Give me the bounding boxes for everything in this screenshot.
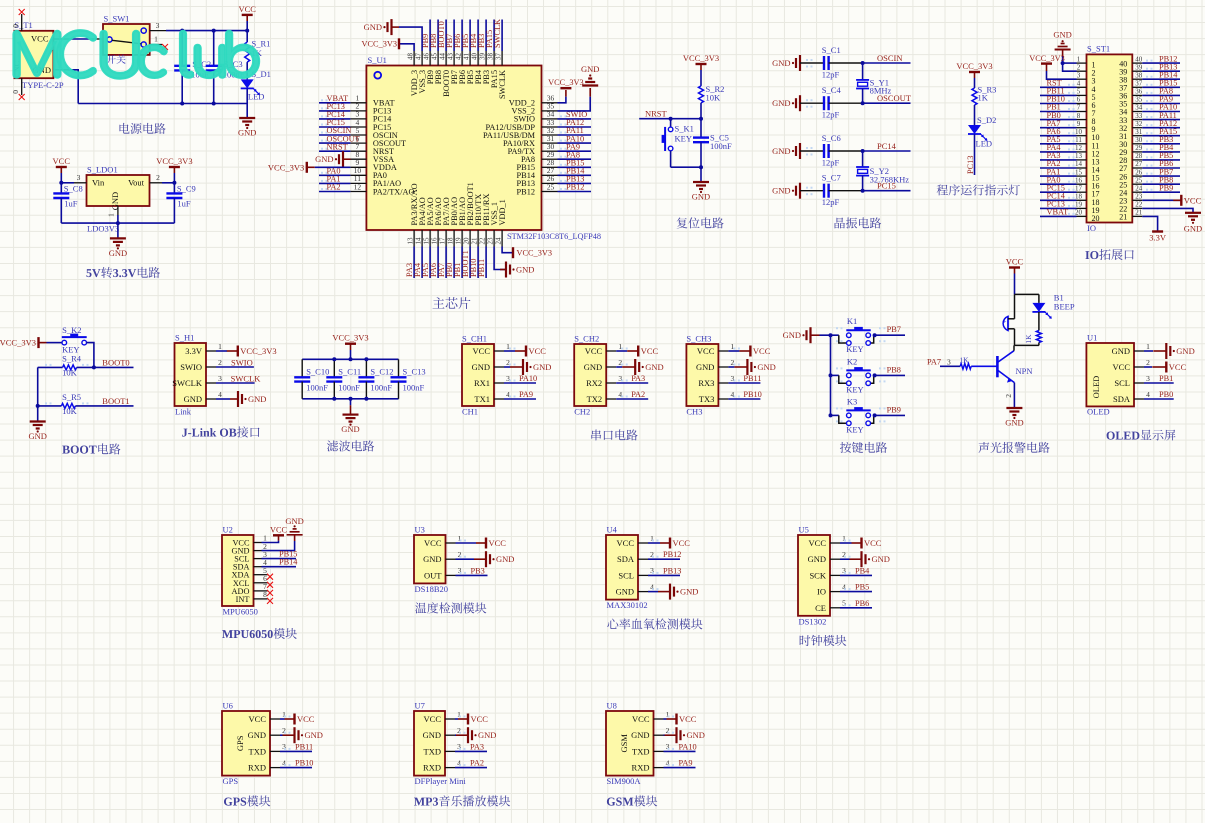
svg-text:PB12: PB12: [566, 183, 584, 192]
svg-text:PB9: PB9: [1159, 183, 1173, 192]
svg-text:K1: K1: [847, 316, 857, 326]
svg-text:25: 25: [1135, 176, 1143, 184]
svg-text:38: 38: [486, 53, 494, 61]
svg-text:31: 31: [1135, 128, 1143, 136]
svg-text:VCC: VCC: [632, 714, 650, 724]
svg-text:SWIO: SWIO: [231, 357, 253, 367]
svg-text:14: 14: [414, 237, 422, 245]
svg-text:GND: GND: [423, 730, 441, 740]
svg-text:GND: GND: [616, 587, 634, 597]
svg-text:PB3: PB3: [471, 566, 485, 575]
svg-text:4: 4: [1077, 80, 1081, 88]
svg-text:NRST: NRST: [645, 109, 668, 119]
svg-text:PA2/TX/AO: PA2/TX/AO: [373, 187, 415, 196]
svg-text:S_LDO1: S_LDO1: [87, 165, 118, 175]
svg-text:13: 13: [1075, 152, 1083, 160]
svg-text:22: 22: [478, 237, 486, 245]
svg-text:8MHz: 8MHz: [870, 86, 892, 96]
svg-text:26: 26: [1135, 168, 1143, 176]
svg-text:LDO3V3: LDO3V3: [87, 224, 119, 234]
svg-text:PB11: PB11: [743, 374, 761, 383]
svg-text:1K: 1K: [1024, 334, 1033, 344]
svg-text:VCC: VCC: [809, 538, 827, 548]
svg-text:GND: GND: [584, 362, 602, 372]
svg-text:VCC: VCC: [489, 538, 507, 548]
svg-text:3: 3: [1146, 374, 1150, 383]
svg-text:Vout: Vout: [128, 178, 145, 188]
svg-text:S_U1: S_U1: [368, 55, 387, 65]
svg-text:STM32F103C8T6_LQFP48: STM32F103C8T6_LQFP48: [507, 232, 601, 241]
svg-text:TYPE-C-2P: TYPE-C-2P: [22, 80, 64, 90]
svg-text:5: 5: [1077, 88, 1081, 96]
svg-text:PB12: PB12: [517, 187, 535, 196]
svg-text:S_CH3: S_CH3: [686, 334, 711, 344]
svg-text:2: 2: [1077, 63, 1081, 71]
svg-text:17: 17: [438, 237, 446, 245]
svg-text:S_H1: S_H1: [175, 333, 194, 343]
svg-text:1: 1: [1077, 55, 1081, 63]
svg-text:VCC: VCC: [697, 346, 715, 356]
svg-text:23: 23: [486, 237, 494, 245]
svg-text:S_ST1: S_ST1: [1087, 44, 1110, 54]
svg-text:VCC_3V3: VCC_3V3: [0, 338, 36, 348]
svg-text:GND: GND: [238, 128, 256, 138]
svg-text:PB1: PB1: [1159, 374, 1173, 383]
svg-text:GND: GND: [1184, 224, 1202, 234]
svg-text:11: 11: [1075, 136, 1082, 144]
svg-text:S_C6: S_C6: [822, 133, 841, 143]
svg-text:GND: GND: [305, 730, 323, 740]
svg-text:RXD: RXD: [632, 763, 650, 773]
svg-text:VBAT: VBAT: [1047, 208, 1069, 217]
svg-text:18: 18: [1075, 193, 1083, 201]
svg-text:8: 8: [1077, 112, 1081, 120]
svg-text:17: 17: [1075, 184, 1083, 192]
svg-text:9: 9: [1077, 120, 1081, 128]
svg-text:GND: GND: [496, 554, 514, 564]
svg-text:GND: GND: [364, 22, 382, 32]
svg-text:MPU6050: MPU6050: [223, 607, 258, 617]
svg-text:10K: 10K: [62, 406, 78, 416]
svg-text:DS1302: DS1302: [799, 616, 827, 626]
svg-text:VCC: VCC: [249, 714, 267, 724]
svg-text:GND: GND: [772, 146, 790, 156]
svg-text:GND: GND: [472, 362, 490, 372]
svg-text:LED: LED: [248, 92, 265, 102]
svg-text:12: 12: [354, 182, 362, 191]
svg-text:3.3V: 3.3V: [185, 346, 203, 356]
svg-text:15: 15: [1075, 168, 1083, 176]
svg-text:1: 1: [154, 35, 158, 44]
svg-text:RXD: RXD: [248, 763, 266, 773]
svg-text:TX1: TX1: [474, 394, 490, 404]
svg-text:U6: U6: [223, 701, 233, 711]
svg-text:43: 43: [446, 53, 454, 61]
svg-text:SWCLK: SWCLK: [498, 70, 507, 99]
svg-text:2: 2: [156, 173, 160, 182]
svg-text:GND: GND: [315, 154, 333, 164]
svg-text:4: 4: [218, 390, 222, 399]
svg-text:VCC_3V3: VCC_3V3: [956, 61, 992, 71]
svg-text:U5: U5: [799, 525, 809, 535]
svg-text:1uF: 1uF: [177, 199, 191, 209]
svg-text:39: 39: [478, 53, 486, 61]
svg-text:VCC: VCC: [471, 714, 489, 724]
svg-text:3: 3: [947, 357, 951, 366]
svg-text:VCC: VCC: [1169, 362, 1187, 372]
svg-text:SCL: SCL: [1114, 378, 1130, 388]
svg-text:TX2: TX2: [587, 394, 603, 404]
svg-text:SWCLK: SWCLK: [231, 373, 262, 383]
svg-text:TXD: TXD: [249, 746, 266, 756]
svg-text:GND: GND: [687, 730, 705, 740]
svg-text:VCC: VCC: [424, 538, 442, 548]
svg-text:30: 30: [1135, 136, 1143, 144]
svg-text:PB9: PB9: [887, 405, 901, 414]
svg-text:RX3: RX3: [698, 378, 714, 388]
svg-text:GND: GND: [772, 98, 790, 108]
svg-text:GPS: GPS: [223, 776, 239, 786]
svg-text:PB8: PB8: [887, 365, 901, 374]
svg-text:32: 32: [1135, 120, 1143, 128]
svg-text:IO: IO: [817, 587, 826, 597]
svg-text:S_C13: S_C13: [403, 367, 426, 377]
svg-text:37: 37: [1135, 80, 1143, 88]
svg-text:GND: GND: [757, 362, 775, 372]
svg-text:3: 3: [156, 21, 160, 30]
svg-text:SIM900A: SIM900A: [607, 776, 642, 786]
svg-text:8: 8: [263, 590, 267, 599]
svg-text:SWCLK: SWCLK: [493, 19, 502, 48]
svg-text:TXD: TXD: [424, 746, 441, 756]
svg-text:KEY: KEY: [846, 384, 863, 394]
svg-text:S_CH1: S_CH1: [462, 334, 487, 344]
svg-text:SCL: SCL: [618, 570, 634, 580]
svg-text:1uF: 1uF: [64, 199, 78, 209]
svg-text:GSM: GSM: [619, 734, 629, 753]
svg-text:SWIO: SWIO: [180, 362, 202, 372]
svg-text:U1: U1: [1087, 333, 1097, 343]
svg-text:37: 37: [494, 53, 502, 61]
svg-text:KEY: KEY: [846, 344, 863, 354]
svg-text:20: 20: [462, 237, 470, 245]
svg-text:GND: GND: [285, 516, 303, 526]
svg-text:VCC: VCC: [585, 346, 603, 356]
svg-text:2: 2: [1146, 358, 1150, 367]
svg-text:10K: 10K: [706, 93, 722, 103]
svg-text:SDA: SDA: [1113, 394, 1131, 404]
svg-text:S_D2: S_D2: [977, 115, 996, 125]
svg-text:44: 44: [438, 53, 446, 61]
svg-text:12pF: 12pF: [822, 70, 840, 80]
svg-text:VCC_3V3: VCC_3V3: [156, 156, 192, 166]
svg-text:PA7: PA7: [927, 357, 941, 366]
svg-text:PA10: PA10: [519, 374, 537, 383]
svg-text:20: 20: [1075, 209, 1083, 217]
svg-text:RX2: RX2: [586, 378, 602, 388]
svg-text:39: 39: [1135, 63, 1143, 71]
svg-text:+: +: [1003, 318, 1007, 326]
svg-text:28: 28: [1135, 152, 1143, 160]
svg-text:U8: U8: [607, 701, 617, 711]
svg-text:0: 0: [11, 90, 20, 94]
svg-text:RX1: RX1: [474, 378, 490, 388]
svg-text:U2: U2: [223, 525, 233, 535]
svg-text:S_C11: S_C11: [338, 367, 361, 377]
svg-text:24: 24: [494, 237, 502, 245]
svg-text:0: 0: [11, 24, 20, 28]
svg-text:S_K1: S_K1: [675, 124, 694, 134]
svg-text:NRST: NRST: [327, 142, 348, 151]
svg-text:PB6: PB6: [855, 599, 869, 608]
svg-text:PB11: PB11: [295, 742, 313, 751]
svg-text:24: 24: [1135, 184, 1143, 192]
svg-text:VCC_3V3: VCC_3V3: [1029, 54, 1065, 63]
svg-text:45: 45: [430, 53, 438, 61]
svg-text:PB5: PB5: [855, 583, 869, 592]
svg-text:19: 19: [454, 237, 462, 245]
svg-text:GND: GND: [783, 330, 801, 340]
svg-text:DFPlayer Mini: DFPlayer Mini: [415, 776, 467, 786]
svg-text:S_C7: S_C7: [822, 173, 841, 183]
svg-text:VCC: VCC: [238, 4, 256, 14]
svg-text:GND: GND: [1176, 346, 1194, 356]
svg-text:20: 20: [1092, 214, 1100, 223]
svg-text:GND: GND: [808, 554, 826, 564]
svg-text:S_C10: S_C10: [306, 367, 329, 377]
svg-text:12pF: 12pF: [822, 197, 840, 207]
svg-text:VCC: VCC: [270, 526, 288, 535]
svg-text:KEY: KEY: [846, 424, 863, 434]
svg-text:21: 21: [470, 237, 478, 245]
svg-text:GND: GND: [1112, 346, 1130, 356]
svg-text:GND: GND: [533, 362, 551, 372]
svg-text:38: 38: [1135, 71, 1143, 79]
svg-text:TX3: TX3: [699, 394, 715, 404]
svg-text:BOOT1: BOOT1: [102, 396, 129, 406]
svg-text:PB13: PB13: [663, 566, 681, 575]
svg-text:PA3: PA3: [470, 742, 484, 751]
svg-text:33: 33: [1135, 112, 1143, 120]
svg-text:PA9: PA9: [519, 390, 533, 399]
svg-text:7: 7: [1077, 104, 1081, 112]
svg-text:PB4: PB4: [855, 566, 870, 575]
svg-text:BOOT0: BOOT0: [102, 358, 129, 368]
svg-text:GPS: GPS: [235, 735, 245, 751]
svg-text:27: 27: [1135, 160, 1143, 168]
svg-text:GND: GND: [680, 587, 698, 597]
svg-text:VCC: VCC: [864, 538, 882, 548]
svg-text:19: 19: [1075, 201, 1083, 209]
svg-text:CE: CE: [815, 603, 826, 613]
svg-text:16: 16: [1075, 176, 1083, 184]
svg-text:CH3: CH3: [686, 407, 702, 417]
svg-text:3.3V: 3.3V: [1149, 233, 1167, 243]
svg-text:S_C12: S_C12: [370, 367, 393, 377]
svg-text:Vin: Vin: [92, 178, 105, 188]
svg-text:GND: GND: [772, 58, 790, 68]
svg-text:GND: GND: [248, 730, 266, 740]
svg-text:40: 40: [470, 53, 478, 61]
svg-text:NPN: NPN: [1016, 366, 1033, 376]
svg-text:GND: GND: [516, 265, 534, 275]
svg-text:S_CH2: S_CH2: [574, 334, 599, 344]
svg-text:PA10: PA10: [679, 742, 697, 751]
svg-text:S_R5: S_R5: [62, 392, 81, 402]
svg-text:21: 21: [1135, 209, 1143, 217]
svg-text:S_SW1: S_SW1: [104, 14, 130, 24]
svg-text:32.768KHz: 32.768KHz: [870, 175, 910, 185]
svg-text:PC13: PC13: [966, 156, 975, 174]
svg-text:MAX30102: MAX30102: [607, 600, 648, 610]
svg-text:PA2: PA2: [470, 759, 484, 768]
svg-text:21: 21: [1119, 213, 1127, 222]
svg-text:GND: GND: [341, 424, 359, 434]
svg-text:VCC: VCC: [617, 538, 635, 548]
svg-text:VCC: VCC: [1113, 362, 1131, 372]
svg-text:TXD: TXD: [632, 746, 649, 756]
svg-text:VCC: VCC: [641, 346, 659, 356]
svg-text:VCC_3V3: VCC_3V3: [683, 53, 719, 63]
svg-text:SDA: SDA: [617, 554, 635, 564]
svg-text:GND: GND: [109, 248, 127, 258]
svg-text:15: 15: [422, 237, 430, 245]
svg-text:42: 42: [454, 53, 462, 61]
svg-text:RXD: RXD: [423, 763, 441, 773]
svg-text:VCC: VCC: [679, 714, 697, 724]
svg-text:VCC_3V3: VCC_3V3: [240, 346, 276, 356]
svg-text:KEY: KEY: [675, 134, 692, 144]
svg-text:23: 23: [1135, 193, 1143, 201]
svg-text:VCC: VCC: [31, 34, 49, 44]
svg-text:25: 25: [547, 182, 555, 191]
svg-text:46: 46: [422, 53, 430, 61]
svg-text:VDD_1: VDD_1: [498, 199, 507, 225]
svg-text:PC14: PC14: [877, 141, 897, 151]
svg-text:CH1: CH1: [462, 407, 478, 417]
svg-text:4: 4: [1146, 390, 1150, 399]
svg-text:PB11: PB11: [477, 259, 486, 277]
svg-text:K2: K2: [847, 356, 857, 366]
svg-text:BEEP: BEEP: [1054, 302, 1075, 312]
svg-text:100nF: 100nF: [370, 383, 392, 393]
svg-text:VCC: VCC: [1006, 257, 1024, 267]
svg-text:100nF: 100nF: [338, 383, 360, 393]
svg-text:VCC: VCC: [473, 346, 491, 356]
svg-text:10: 10: [1075, 128, 1083, 136]
svg-text:OLED: OLED: [1087, 407, 1110, 417]
svg-text:PA2: PA2: [327, 183, 341, 192]
svg-text:VCC: VCC: [529, 346, 547, 356]
svg-text:3: 3: [218, 374, 222, 383]
svg-text:GND: GND: [581, 64, 599, 74]
svg-text:36: 36: [1135, 88, 1143, 96]
svg-text:12pF: 12pF: [822, 158, 840, 168]
svg-text:PB14: PB14: [279, 558, 298, 567]
svg-text:100nF: 100nF: [710, 141, 732, 151]
svg-text:VCC_3V3: VCC_3V3: [517, 249, 553, 258]
svg-text:1K: 1K: [959, 355, 969, 364]
svg-text:GND: GND: [872, 554, 890, 564]
svg-text:S_C1: S_C1: [822, 45, 841, 55]
svg-text:VCC_3V3: VCC_3V3: [362, 40, 398, 49]
svg-text:S_R1: S_R1: [252, 39, 271, 49]
svg-text:100nF: 100nF: [403, 383, 425, 393]
svg-text:S_C9: S_C9: [177, 184, 196, 194]
svg-text:1K: 1K: [978, 93, 989, 103]
svg-text:3: 3: [1077, 71, 1081, 79]
svg-text:6: 6: [1077, 96, 1081, 104]
svg-text:K3: K3: [847, 396, 857, 406]
svg-text:GND: GND: [478, 730, 496, 740]
svg-text:GND: GND: [28, 431, 46, 441]
svg-text:OSCIN: OSCIN: [877, 53, 903, 63]
svg-text:100nF: 100nF: [306, 383, 328, 393]
svg-text:U4: U4: [607, 525, 618, 535]
svg-text:PB10: PB10: [743, 390, 761, 399]
svg-text:VCC_3V3: VCC_3V3: [548, 78, 584, 87]
svg-text:10K: 10K: [62, 368, 78, 378]
svg-text:GND: GND: [184, 394, 202, 404]
svg-text:VCC_3V3: VCC_3V3: [268, 162, 304, 172]
svg-text:VCC_3V3: VCC_3V3: [332, 333, 368, 343]
svg-text:INT: INT: [236, 595, 250, 604]
svg-text:PB0: PB0: [1159, 390, 1173, 399]
svg-text:1: 1: [218, 342, 222, 351]
svg-text:S_K2: S_K2: [62, 325, 81, 335]
svg-text:13: 13: [406, 237, 414, 245]
svg-text:GND: GND: [645, 362, 663, 372]
svg-text:PA9: PA9: [679, 759, 693, 768]
svg-text:12pF: 12pF: [822, 110, 840, 120]
svg-text:PB7: PB7: [887, 325, 901, 334]
svg-text:41: 41: [462, 53, 470, 61]
svg-text:VCC: VCC: [1184, 195, 1202, 205]
svg-text:40: 40: [1135, 55, 1143, 63]
svg-text:PB10: PB10: [295, 759, 313, 768]
svg-text:2: 2: [1004, 394, 1013, 398]
svg-text:SCK: SCK: [809, 570, 826, 580]
svg-text:SWCLK: SWCLK: [172, 378, 203, 388]
svg-text:22: 22: [1135, 201, 1143, 209]
svg-text:GND: GND: [1005, 418, 1023, 428]
svg-text:3: 3: [77, 173, 81, 182]
svg-text:47: 47: [414, 53, 422, 61]
svg-text:GND: GND: [692, 192, 710, 202]
svg-text:14: 14: [1075, 160, 1083, 168]
svg-text:DS18B20: DS18B20: [415, 584, 449, 594]
svg-text:18: 18: [446, 237, 454, 245]
svg-text:Link: Link: [175, 407, 192, 417]
svg-text:1: 1: [107, 213, 116, 217]
svg-text:VCC: VCC: [424, 714, 442, 724]
svg-text:S_C4: S_C4: [822, 85, 842, 95]
svg-text:16: 16: [430, 237, 438, 245]
svg-text:U3: U3: [415, 525, 425, 535]
svg-text:VCC: VCC: [753, 346, 771, 356]
svg-text:LED: LED: [976, 139, 993, 149]
svg-text:GND: GND: [423, 554, 441, 564]
svg-text:OUT: OUT: [424, 570, 442, 580]
svg-text:GND: GND: [248, 394, 266, 404]
svg-text:IO: IO: [1087, 223, 1096, 233]
svg-text:PB12: PB12: [663, 550, 681, 559]
svg-text:U7: U7: [415, 701, 425, 711]
svg-text:GND: GND: [1053, 30, 1071, 40]
svg-text:29: 29: [1135, 144, 1143, 152]
svg-text:2: 2: [218, 358, 222, 367]
svg-text:OLED: OLED: [1091, 376, 1101, 399]
